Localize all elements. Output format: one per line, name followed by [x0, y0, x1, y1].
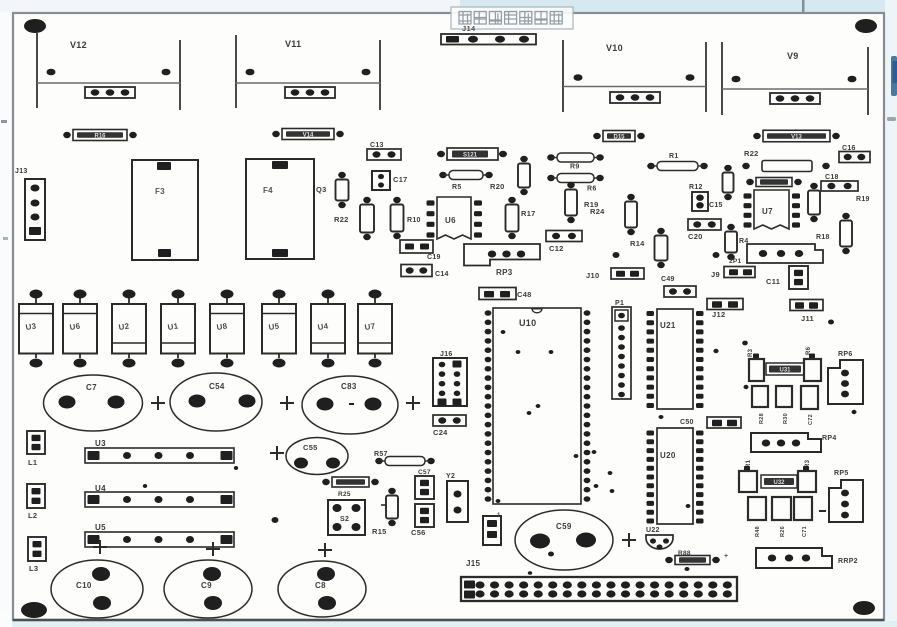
svg-text:C49: C49: [661, 276, 675, 283]
svg-text:C72: C72: [808, 414, 814, 425]
svg-text:C59: C59: [556, 522, 572, 531]
svg-text:J10: J10: [586, 271, 599, 280]
svg-text:C19: C19: [427, 254, 441, 261]
svg-text:C13: C13: [370, 142, 384, 149]
svg-text:V10: V10: [606, 43, 623, 53]
svg-text:J15: J15: [466, 559, 480, 568]
svg-text:1: 1: [497, 513, 501, 519]
svg-text:U21: U21: [660, 321, 676, 330]
svg-text:U3: U3: [25, 322, 37, 332]
svg-text:R5: R5: [452, 184, 462, 191]
svg-text:+: +: [724, 553, 728, 560]
svg-text:C9: C9: [201, 581, 212, 590]
svg-text:R20: R20: [490, 182, 505, 191]
svg-text:J13: J13: [15, 168, 28, 175]
svg-text:C12: C12: [549, 244, 564, 253]
svg-text:U7: U7: [762, 207, 773, 216]
svg-text:J9: J9: [711, 270, 720, 279]
svg-text:U1: U1: [167, 322, 179, 332]
svg-text:U6: U6: [445, 216, 456, 225]
svg-text:RP3: RP3: [496, 268, 513, 277]
svg-text:C7: C7: [86, 383, 97, 392]
svg-text:C83: C83: [341, 382, 357, 391]
svg-text:U4: U4: [317, 322, 329, 332]
svg-text:R6: R6: [587, 186, 597, 193]
svg-text:J14: J14: [462, 24, 476, 33]
svg-text:L3: L3: [29, 564, 38, 573]
svg-text:U7: U7: [364, 322, 376, 332]
svg-text:C50: C50: [680, 419, 694, 426]
svg-text:J12: J12: [712, 310, 725, 319]
svg-text:C56: C56: [411, 528, 426, 537]
svg-text:R28: R28: [759, 413, 765, 424]
svg-text:C24: C24: [433, 428, 448, 437]
svg-text:R9: R9: [570, 164, 580, 171]
svg-text:C8: C8: [315, 581, 326, 590]
svg-text:Y2: Y2: [446, 473, 455, 480]
svg-text:V9: V9: [787, 51, 799, 61]
svg-text:U5: U5: [268, 322, 280, 332]
svg-text:C48: C48: [517, 290, 532, 299]
svg-text:C55: C55: [303, 443, 318, 452]
svg-text:RP6: RP6: [838, 351, 853, 358]
svg-text:R16: R16: [94, 133, 106, 139]
svg-text:C71: C71: [802, 526, 808, 537]
svg-text:R26: R26: [780, 526, 786, 537]
svg-text:U32: U32: [773, 480, 785, 486]
svg-text:R1: R1: [669, 153, 679, 160]
svg-text:R22: R22: [334, 215, 349, 224]
svg-text:D15: D15: [613, 134, 625, 140]
svg-text:L2: L2: [28, 511, 37, 520]
svg-text:U6: U6: [69, 322, 81, 332]
svg-text:R57: R57: [374, 451, 388, 458]
svg-text:U31: U31: [779, 368, 791, 374]
svg-text:C54: C54: [209, 382, 225, 391]
svg-text:R25: R25: [338, 491, 351, 498]
svg-text:S2: S2: [340, 516, 349, 523]
svg-text:F4: F4: [263, 186, 273, 195]
svg-text:V11: V11: [285, 39, 301, 49]
svg-text:RP4: RP4: [822, 435, 837, 442]
svg-text:Q3: Q3: [316, 185, 327, 194]
svg-text:C57: C57: [418, 469, 431, 476]
svg-text:J16: J16: [440, 351, 453, 358]
svg-text:V14: V14: [303, 132, 314, 138]
svg-text:L1: L1: [28, 458, 37, 467]
svg-text:U20: U20: [660, 451, 676, 460]
svg-text:U2: U2: [118, 322, 130, 332]
svg-text:V12: V12: [70, 40, 87, 50]
svg-text:U22: U22: [646, 527, 660, 534]
svg-text:C10: C10: [76, 581, 92, 590]
svg-text:R12: R12: [689, 184, 703, 191]
svg-text:2P1: 2P1: [729, 258, 742, 265]
svg-text:R10: R10: [407, 217, 421, 224]
svg-text:V13: V13: [791, 134, 802, 140]
svg-text:RRP2: RRP2: [838, 558, 858, 565]
svg-text:R17: R17: [521, 209, 536, 218]
svg-text:P1: P1: [615, 300, 624, 307]
svg-text:R18: R18: [816, 234, 830, 241]
svg-text:C16: C16: [842, 145, 856, 152]
svg-text:S121: S121: [463, 153, 478, 159]
svg-text:U10: U10: [519, 318, 536, 328]
svg-text:R22: R22: [744, 149, 759, 158]
svg-text:F3: F3: [155, 187, 165, 196]
svg-text:C17: C17: [393, 175, 408, 184]
svg-text:R48: R48: [755, 526, 761, 537]
svg-text:C14: C14: [435, 271, 449, 278]
svg-text:R14: R14: [630, 239, 645, 248]
svg-text:C18: C18: [825, 174, 839, 181]
svg-text:U3: U3: [95, 439, 106, 448]
svg-text:C15: C15: [709, 202, 723, 209]
svg-text:C20: C20: [688, 232, 703, 241]
svg-text:U8: U8: [216, 322, 228, 332]
svg-text:R24: R24: [590, 207, 605, 216]
svg-text:R30: R30: [783, 413, 789, 424]
svg-text:R19: R19: [856, 196, 870, 203]
svg-text:RP5: RP5: [834, 470, 849, 477]
svg-text:R15: R15: [372, 527, 387, 536]
svg-text:U5: U5: [95, 523, 106, 532]
svg-text:C11: C11: [766, 277, 780, 286]
svg-text:J11: J11: [801, 314, 814, 323]
